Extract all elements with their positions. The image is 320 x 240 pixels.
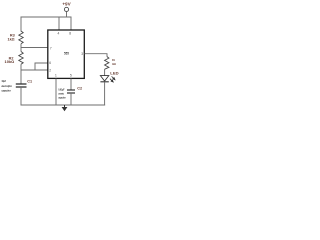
svg-text:10kΩ: 10kΩ [5,60,15,64]
resistor R3 [19,31,23,44]
wire R1 to LED [104,69,106,76]
power terminal circle [64,7,68,11]
svg-text:3: 3 [81,52,83,56]
svg-text:4: 4 [58,32,60,36]
wire left drop to R3 [20,17,22,32]
wire pin 3 output [85,54,108,57]
wire R3 to R2 [20,44,22,52]
wire R2 down to C1 [20,64,22,84]
wire bottom bus [21,104,106,106]
svg-text:1kΩ: 1kΩ [112,62,116,66]
resistor R1 [105,57,109,70]
svg-text:LED: LED [110,72,119,76]
svg-text:7: 7 [50,47,52,51]
svg-text:1: 1 [55,73,57,77]
IC U1 555 timer [48,30,85,78]
svg-text:C1: C1 [27,79,32,83]
wire from terminal to top bus [66,12,68,18]
wire pin 6 link [35,63,48,70]
svg-text:8: 8 [69,32,71,36]
wire top bus [21,16,72,18]
svg-text:2: 2 [49,68,51,72]
svg-text:10µF: 10µF [2,79,7,83]
ground [64,105,66,107]
wire C1 to ground bus [20,87,22,106]
svg-text:C2: C2 [77,87,82,91]
LED D1 [100,76,108,81]
LED emission arrows [110,76,115,82]
svg-text:capacitor: capacitor [58,95,66,99]
wire pin 4 drop [58,17,60,30]
wire LED to ground bus [104,82,106,106]
wire pin 5 to C2 [70,79,72,91]
wire to pin 2 [21,69,48,71]
svg-text:555: 555 [64,52,69,56]
svg-text:capacitor: capacitor [2,89,12,93]
svg-text:6: 6 [49,61,51,65]
wire to pin 7 [21,47,48,49]
svg-text:5: 5 [70,73,72,77]
svg-text:+9V: +9V [62,2,71,7]
resistor R2 [19,52,23,65]
wire C2 to ground bus [70,93,72,105]
capacitor C2 [67,89,75,91]
svg-text:1kΩ: 1kΩ [8,38,15,42]
svg-text:electrolytic: electrolytic [2,84,13,88]
capacitor C1 [16,83,27,85]
wire pin 1 to ground bus [55,79,57,106]
wire pin 8 drop [70,17,72,30]
